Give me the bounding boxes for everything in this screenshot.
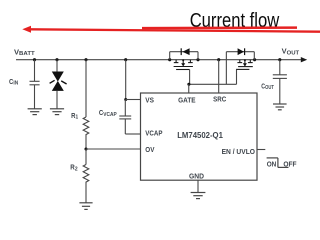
svg-text:OV: OV — [145, 145, 154, 154]
svg-text:GATE: GATE — [178, 95, 196, 104]
wire VCAP pin stub — [125, 133, 140, 135]
svg-text:ON: ON — [267, 159, 277, 168]
junction dot OV divider — [84, 147, 87, 150]
svg-text:VS: VS — [145, 96, 154, 105]
ground GND — [191, 193, 206, 199]
junction dot Q1 left — [168, 58, 171, 61]
wire OV pin stub — [86, 148, 141, 150]
wire Q2 gate lead — [236, 69, 238, 84]
transistor Q2 — [236, 60, 253, 70]
transistor Q1 — [174, 60, 193, 70]
transistor Q1 body-diode loop — [170, 52, 198, 60]
op-amp U1 LM74502-Q1 box — [141, 93, 258, 180]
wire VS pin stub — [126, 99, 141, 101]
TVS diode D1 — [50, 60, 67, 109]
red underline — [142, 26, 297, 29]
wire GND pin — [197, 180, 199, 192]
resistor R1 — [83, 60, 89, 149]
junction dot VS/CVCAP — [124, 98, 127, 101]
arrow Q2 body — [243, 63, 247, 66]
switch ON/OFF waveform — [267, 158, 289, 168]
svg-text:LM74502-Q1: LM74502-Q1 — [177, 130, 223, 140]
diode Q1 body — [181, 48, 189, 55]
junction dot Q1 body — [182, 59, 184, 61]
svg-text:SRC: SRC — [213, 95, 227, 104]
junction dot gate net — [187, 83, 190, 86]
red current-flow arrow — [22, 26, 320, 33]
junction dot CIN — [33, 58, 36, 61]
capacitor CVCAP — [119, 100, 131, 135]
diode Q2 body — [238, 48, 245, 55]
ground R2 — [79, 203, 92, 210]
svg-text:GND: GND — [189, 172, 204, 181]
ground TVS — [50, 109, 64, 115]
junction dot Q2 right — [253, 58, 256, 61]
junction dot COUT — [278, 58, 281, 61]
junction dot TVS — [55, 58, 58, 61]
transistor Q2 body-diode loop — [226, 52, 254, 60]
junction dot R1 — [84, 58, 87, 61]
wire gate net horizontal — [189, 83, 237, 85]
wire Q2 source to gate-net — [225, 60, 227, 85]
svg-text:OFF: OFF — [283, 159, 297, 168]
junction dot Q1 right — [196, 58, 199, 61]
capacitor COUT — [273, 60, 287, 104]
arrow Q1 body — [181, 63, 185, 66]
capacitor CIN — [30, 60, 40, 109]
wire EN/UVLO pin stub — [257, 149, 265, 151]
junction dot VS branch — [124, 58, 127, 61]
wire VS branch from bus — [125, 60, 127, 100]
ground CIN — [28, 109, 42, 115]
wire main bus VBATT to VOUT — [16, 59, 302, 61]
node VOUT arrowhead — [301, 57, 307, 62]
svg-text:VCAP: VCAP — [145, 129, 162, 138]
wire GATE pin — [188, 84, 190, 93]
svg-text:EN / UVLO: EN / UVLO — [222, 147, 256, 156]
junction dot SRC — [217, 58, 220, 61]
junction dot Q2 body — [244, 59, 246, 61]
wire Q1 gate lead — [189, 70, 191, 85]
ground COUT — [273, 104, 287, 110]
resistor R2 — [83, 149, 89, 203]
wire SRC pin — [218, 60, 220, 93]
